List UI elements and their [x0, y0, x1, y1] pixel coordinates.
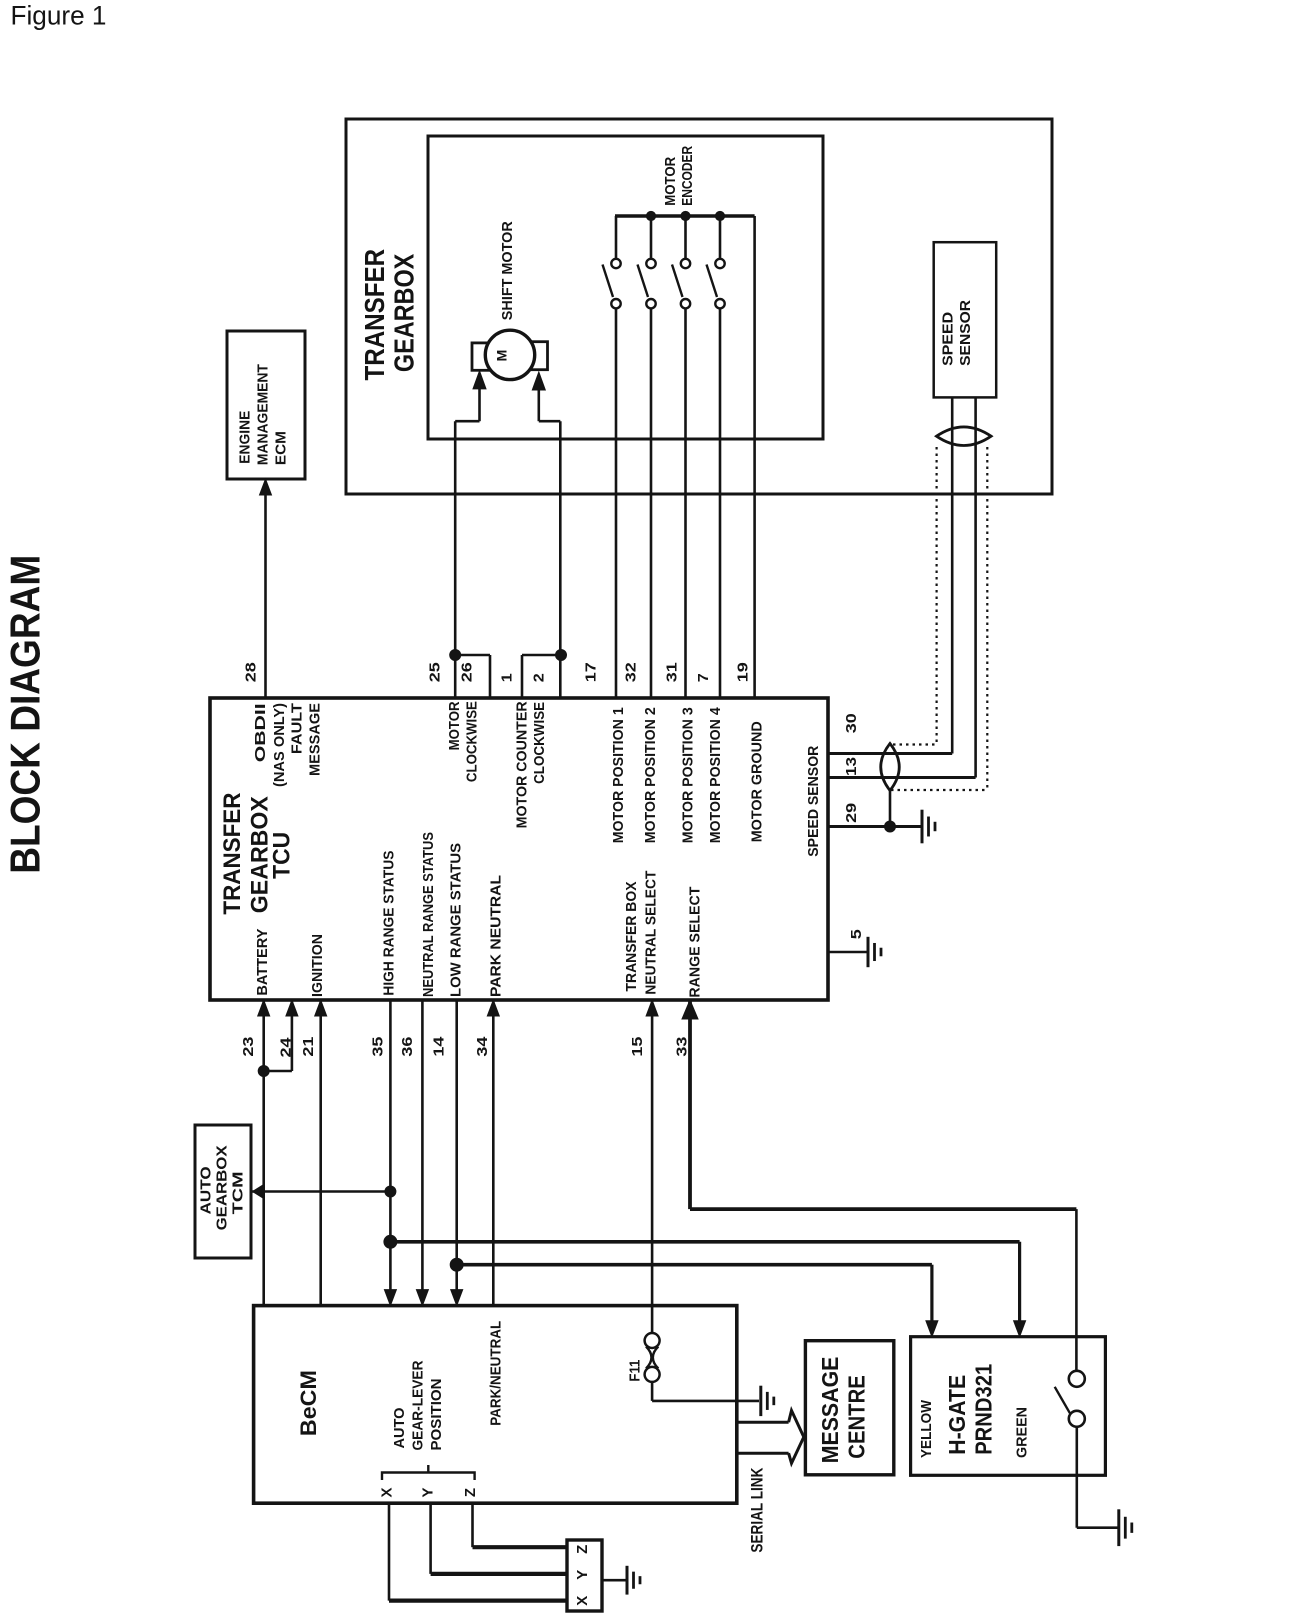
svg-text:Figure 1: Figure 1	[11, 1, 107, 31]
svg-text:PARK/NEUTRAL: PARK/NEUTRAL	[488, 1321, 505, 1426]
svg-text:29: 29	[843, 803, 860, 823]
svg-text:26: 26	[459, 662, 476, 682]
svg-text:OBDII: OBDII	[252, 703, 269, 762]
svg-text:GEARBOX: GEARBOX	[214, 1145, 231, 1230]
svg-text:AUTO: AUTO	[391, 1407, 408, 1448]
svg-text:19: 19	[735, 662, 752, 682]
svg-text:ENGINE: ENGINE	[237, 411, 254, 464]
svg-text:SERIAL LINK: SERIAL LINK	[748, 1467, 767, 1553]
svg-text:TRANSFER: TRANSFER	[359, 249, 390, 381]
svg-text:MOTOR: MOTOR	[446, 701, 463, 750]
svg-text:SPEED: SPEED	[940, 312, 957, 366]
svg-text:ECM: ECM	[273, 431, 290, 465]
svg-text:YELLOW: YELLOW	[918, 1399, 935, 1458]
svg-text:PARK NEUTRAL: PARK NEUTRAL	[487, 875, 504, 997]
svg-text:TCM: TCM	[230, 1171, 247, 1214]
svg-text:7: 7	[695, 673, 712, 682]
svg-text:MOTOR: MOTOR	[662, 157, 679, 206]
svg-text:CENTRE: CENTRE	[844, 1375, 870, 1459]
svg-text:SHIFT MOTOR: SHIFT MOTOR	[499, 221, 516, 320]
svg-text:Y: Y	[574, 1570, 591, 1580]
svg-text:30: 30	[843, 713, 860, 733]
svg-text:2: 2	[530, 673, 547, 682]
svg-text:MOTOR COUNTER: MOTOR COUNTER	[513, 701, 530, 828]
svg-text:31: 31	[663, 662, 680, 682]
svg-text:MANAGEMENT: MANAGEMENT	[255, 364, 272, 465]
svg-text:SENSOR: SENSOR	[957, 300, 974, 366]
svg-text:F11: F11	[626, 1360, 643, 1382]
svg-text:Y: Y	[420, 1487, 437, 1497]
svg-text:H-GATE: H-GATE	[944, 1375, 970, 1455]
svg-text:33: 33	[673, 1037, 690, 1057]
svg-text:POSITION: POSITION	[428, 1379, 445, 1451]
svg-text:14: 14	[430, 1036, 447, 1057]
svg-text:25: 25	[427, 662, 444, 682]
svg-text:MOTOR POSITION 4: MOTOR POSITION 4	[707, 707, 724, 844]
svg-text:X: X	[574, 1596, 591, 1606]
svg-text:28: 28	[242, 662, 259, 682]
svg-text:GREEN: GREEN	[1013, 1407, 1030, 1458]
svg-text:NEUTRAL SELECT: NEUTRAL SELECT	[642, 871, 659, 995]
svg-text:GEARBOX: GEARBOX	[388, 253, 419, 372]
svg-text:AUTO: AUTO	[198, 1166, 215, 1214]
svg-text:GEAR-LEVER: GEAR-LEVER	[409, 1360, 426, 1450]
svg-text:HIGH RANGE STATUS: HIGH RANGE STATUS	[380, 851, 397, 996]
svg-text:CLOCKWISE: CLOCKWISE	[531, 702, 548, 784]
svg-text:LOW RANGE STATUS: LOW RANGE STATUS	[448, 843, 465, 997]
svg-text:5: 5	[848, 929, 865, 939]
svg-text:MOTOR POSITION 2: MOTOR POSITION 2	[642, 707, 659, 843]
svg-text:15: 15	[629, 1037, 646, 1057]
svg-text:TCU: TCU	[269, 832, 296, 879]
svg-text:23: 23	[240, 1037, 257, 1057]
svg-text:TRANSFER BOX: TRANSFER BOX	[623, 882, 640, 992]
svg-text:24: 24	[277, 1037, 294, 1058]
svg-text:Z: Z	[462, 1488, 479, 1497]
svg-text:17: 17	[583, 662, 600, 682]
svg-text:(NAS ONLY): (NAS ONLY)	[271, 703, 288, 787]
svg-text:MESSAGE: MESSAGE	[306, 703, 323, 776]
svg-text:MESSAGE: MESSAGE	[817, 1357, 843, 1464]
svg-text:34: 34	[474, 1036, 491, 1057]
svg-text:BATTERY: BATTERY	[254, 929, 271, 996]
svg-text:TRANSFER: TRANSFER	[219, 793, 246, 915]
svg-text:RANGE SELECT: RANGE SELECT	[687, 887, 704, 998]
svg-text:BLOCK DIAGRAM: BLOCK DIAGRAM	[2, 555, 49, 874]
svg-text:NEUTRAL RANGE STATUS: NEUTRAL RANGE STATUS	[420, 832, 437, 997]
svg-text:ENCODER: ENCODER	[679, 146, 696, 206]
svg-text:21: 21	[300, 1037, 317, 1057]
svg-text:MOTOR POSITION 3: MOTOR POSITION 3	[679, 707, 696, 843]
svg-text:MOTOR POSITION 1: MOTOR POSITION 1	[610, 707, 627, 843]
svg-text:Z: Z	[574, 1545, 591, 1554]
svg-text:13: 13	[843, 757, 860, 776]
svg-text:SPEED SENSOR: SPEED SENSOR	[805, 746, 822, 857]
svg-text:1: 1	[498, 673, 515, 682]
svg-text:FAULT: FAULT	[288, 703, 305, 754]
svg-text:35: 35	[369, 1037, 386, 1057]
svg-text:MOTOR GROUND: MOTOR GROUND	[748, 721, 765, 842]
svg-text:M: M	[494, 350, 510, 362]
svg-text:CLOCKWISE: CLOCKWISE	[463, 701, 480, 782]
svg-text:32: 32	[623, 662, 640, 682]
svg-text:36: 36	[399, 1037, 416, 1057]
svg-text:X: X	[379, 1487, 396, 1497]
svg-text:BeCM: BeCM	[296, 1370, 321, 1436]
svg-text:PRND321: PRND321	[970, 1364, 996, 1455]
svg-text:IGNITION: IGNITION	[309, 934, 326, 997]
